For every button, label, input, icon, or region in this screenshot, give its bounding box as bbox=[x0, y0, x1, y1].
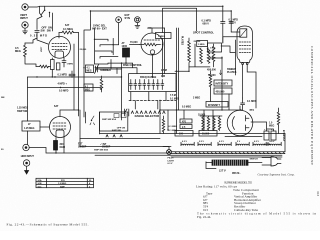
resistor box 4.1 meg lower bbox=[84, 84, 93, 92]
wire bus y110 bbox=[160, 109, 241, 111]
capacitor 4 MFD electrolytic bbox=[58, 71, 76, 85]
wire V2 grid left bbox=[130, 44, 140, 46]
tube V5 5T4 rectifier bbox=[227, 106, 253, 136]
label SWEEP PLATES bbox=[227, 68, 237, 74]
transformer T1 secondary winding 6.3V a bbox=[181, 141, 194, 146]
data block row 885 bbox=[203, 201, 257, 205]
jack J4 bbox=[135, 17, 141, 23]
tube V2 885 sweep oscillator bbox=[141, 33, 163, 55]
transformer T1 secondary winding 6.3V b bbox=[218, 141, 231, 146]
resistor box R7 1.25 MEG bbox=[22, 121, 40, 131]
potentiometer SYNC AMPL bbox=[123, 48, 130, 63]
jack J6 bbox=[23, 160, 29, 166]
wire bus y157 bbox=[171, 156, 282, 158]
wire bus B+ y77 bbox=[28, 76, 122, 78]
capacitor bank C1-C8 bbox=[129, 80, 164, 90]
data block row 5T4 bbox=[203, 205, 246, 209]
tube V4 6J7 horizontal amplifier bbox=[50, 117, 71, 138]
wire J5 to sweep switch bbox=[29, 148, 171, 154]
wire J1 to top bus bbox=[28, 6, 39, 9]
labels 7.5 meg lower bbox=[170, 95, 179, 101]
box 1 MEG spot bbox=[197, 41, 208, 47]
wire riser x229 bbox=[228, 94, 230, 110]
wire CRT grid lead outside bbox=[235, 40, 237, 75]
wire under rectifier bbox=[225, 136, 262, 138]
transformer T1 secondary winding 5V bbox=[236, 141, 249, 146]
transformer T1 primary winding bbox=[206, 160, 262, 165]
wire spot box to CRT plates bbox=[209, 6, 235, 59]
label 6J7 plate resistor bbox=[63, 23, 73, 31]
label VERT INPUT bbox=[20, 13, 28, 20]
wire top bus A bbox=[40, 5, 223, 7]
svg-text:COMMERCIAL OSCILLOSCOPES AND R: COMMERCIAL OSCILLOSCOPES AND RELATED EQU… bbox=[310, 46, 314, 166]
resistor vertical x163 bbox=[162, 116, 164, 134]
wire heater bus y133.5 bbox=[100, 133, 286, 135]
label 50000 with arrow bbox=[208, 70, 222, 77]
wire left riser bbox=[27, 77, 29, 144]
resistor 0.1 MEG bbox=[59, 31, 79, 34]
data block row 913 bbox=[203, 208, 259, 212]
wire sync junction web bbox=[95, 60, 137, 74]
label EXT SYN bbox=[125, 13, 131, 20]
CRT 913 cathode ray tube bbox=[237, 26, 252, 62]
plug P1 line cord bbox=[262, 157, 281, 167]
small switch left of chevrons bbox=[125, 109, 129, 116]
double line plates riser bbox=[177, 28, 179, 134]
wire resistor to riser bbox=[78, 33, 80, 117]
trimmer box sync bbox=[86, 65, 94, 73]
wire top bus A2 bbox=[163, 8, 197, 31]
data block row 6J7 horizontal bbox=[203, 198, 262, 202]
capacitor 0.25 MFD bbox=[35, 30, 48, 44]
wire long riser x84 bbox=[84, 25, 90, 117]
wire bus y155.3 bbox=[95, 154, 282, 156]
label 0.5 MEG bbox=[15, 46, 21, 53]
resistor vertical x101 bbox=[100, 76, 103, 92]
resistor ladder R ladder 2 bbox=[200, 48, 203, 63]
resistor ladder R ladder 4 bbox=[212, 44, 215, 67]
jack J1 VERT INPUT bbox=[22, 4, 28, 10]
label SYNC SELECTOR bbox=[92, 24, 107, 31]
potentiometer cathode V4 bbox=[54, 137, 65, 154]
wire V2 plate bbox=[152, 28, 165, 33]
wire V4 grid left bbox=[40, 126, 50, 128]
wire CRT heater right bbox=[247, 65, 256, 108]
label 1.25 meg upper bbox=[17, 107, 28, 114]
wire spot vertical x195 bbox=[189, 44, 210, 67]
contact chevrons below sweep box bbox=[106, 135, 122, 137]
wire V2 cathode down bbox=[152, 54, 154, 77]
switch wiper contacts chevrons bbox=[131, 111, 165, 114]
wire bus y87.5 bbox=[28, 87, 102, 89]
transformer T1 core bbox=[171, 152, 285, 154]
divider resistor bank R bank bbox=[200, 116, 222, 131]
transformer T1 secondary winding HV a bbox=[253, 141, 266, 146]
resistor box 2.5 bbox=[180, 125, 192, 129]
jack J3 EXT SYN bbox=[116, 17, 122, 23]
resistor grid V2 bbox=[140, 43, 161, 46]
ground below J2 bbox=[23, 28, 28, 34]
labels 0.1 meg pair bbox=[169, 126, 178, 132]
dash contact line below bank bbox=[129, 100, 176, 102]
wire 117V lead bbox=[206, 162, 216, 169]
sweep switch S3 contacts bbox=[86, 112, 100, 134]
label 1.0 meg bbox=[269, 123, 274, 128]
resistor focus bleeder bbox=[209, 71, 211, 102]
capacitor 0.1 MFD top left bbox=[221, 6, 225, 43]
label PILOT LIGHT bbox=[168, 158, 175, 165]
resistor box cathode V1 bbox=[51, 58, 55, 77]
wire FINE CONTROL line bbox=[108, 63, 133, 120]
wire caps riser bbox=[284, 134, 286, 152]
label 0.1 MFD 400V bbox=[229, 19, 239, 25]
wire CRT cathode down bbox=[242, 65, 244, 98]
transformer T1 secondary winding 2.5V bbox=[198, 141, 211, 146]
wire riser x74 bbox=[73, 44, 75, 110]
wire switch to coupling cap bbox=[37, 17, 42, 30]
jack J5 HOR INPUT bbox=[23, 144, 29, 150]
sweep switch box 2 bbox=[100, 112, 128, 132]
resistor 0.5 MEG vertical bbox=[24, 38, 37, 67]
box frequency range capacitor bank bbox=[129, 74, 176, 92]
switch S1 vert attenuator bbox=[40, 6, 53, 31]
resistor box 100 ohm bbox=[175, 131, 193, 137]
wire bottom of ladder bbox=[175, 70, 189, 72]
ground below J4 bbox=[135, 23, 140, 29]
capacitor 0.1 MFD top right bbox=[229, 11, 233, 32]
pilot lamp bbox=[163, 147, 172, 155]
wire riser x80 sweep bbox=[79, 110, 81, 147]
wire risers double x162-164 bbox=[163, 11, 165, 77]
wire drops to heater boxes bbox=[184, 110, 213, 131]
wire rectifier to caps bbox=[251, 122, 274, 131]
resistor ladder R ladder 3 bbox=[207, 48, 210, 63]
jack J2 bbox=[22, 22, 28, 28]
CRT base pins bbox=[242, 63, 248, 65]
switch S2 sync selector bbox=[94, 28, 119, 64]
label switch OFF ON bbox=[41, 26, 52, 33]
ground arrow below J6 bbox=[25, 166, 29, 174]
labels 1.5 meg left of box bbox=[161, 70, 167, 78]
label 0.1 MFD 600 V bbox=[202, 20, 212, 26]
wire bus y138.5 bbox=[80, 138, 160, 140]
box 450000 ohm bbox=[214, 88, 232, 94]
wire V4 plate up bbox=[60, 110, 79, 117]
resistor box 470 bbox=[180, 119, 192, 123]
wire J3 down to sync selector bbox=[118, 23, 120, 45]
capacitor 8 MFD a bbox=[264, 129, 269, 140]
potentiometer box 1 MEG above V2 bbox=[156, 33, 172, 39]
data block sentence bbox=[197, 212, 316, 219]
wire riser x160 bbox=[159, 100, 161, 134]
svg-text:313: 313 bbox=[316, 191, 320, 196]
box INTENSITY bbox=[214, 80, 232, 86]
wire riser x222 bbox=[221, 57, 223, 110]
capacitor lower 0.1 MFD bbox=[241, 98, 245, 110]
box 1.5 MEG spot bbox=[208, 43, 222, 52]
data block header row bbox=[206, 191, 254, 195]
wire riser x168 bbox=[167, 110, 169, 130]
table socket legend bbox=[36, 178, 94, 188]
label 1000 ohm pot bbox=[122, 42, 128, 48]
label INT SWEEP bbox=[100, 143, 111, 149]
wire 60~ tap riser bbox=[90, 11, 231, 25]
data block row 6J7 vertical bbox=[203, 195, 258, 199]
box INTENSITY 2 bbox=[206, 102, 228, 108]
capacitor 8 MFD b bbox=[271, 129, 276, 140]
resistor bleeder vertical bbox=[277, 108, 279, 134]
resistor box 10000 ohm bbox=[199, 131, 217, 137]
label EXT SWEEP bbox=[78, 144, 87, 149]
wire stubs freq bank to selector bbox=[131, 92, 166, 109]
wire plate V1 up to resistor bbox=[58, 33, 60, 39]
wire CRT plate leads left bbox=[223, 32, 240, 43]
trimmer capacitor bbox=[95, 65, 122, 74]
wire bus y146.5 bbox=[80, 146, 171, 148]
capacitor cathode bypass bbox=[56, 58, 73, 70]
transformer T1 secondary winding HV b bbox=[268, 141, 281, 146]
resistor cathode bias V1 bbox=[36, 65, 51, 68]
resistor ladder R ladder 1 bbox=[188, 38, 191, 71]
scan noise texture bbox=[0, 0, 1, 1]
tube V1 6J7 vertical amplifier bbox=[49, 36, 71, 58]
